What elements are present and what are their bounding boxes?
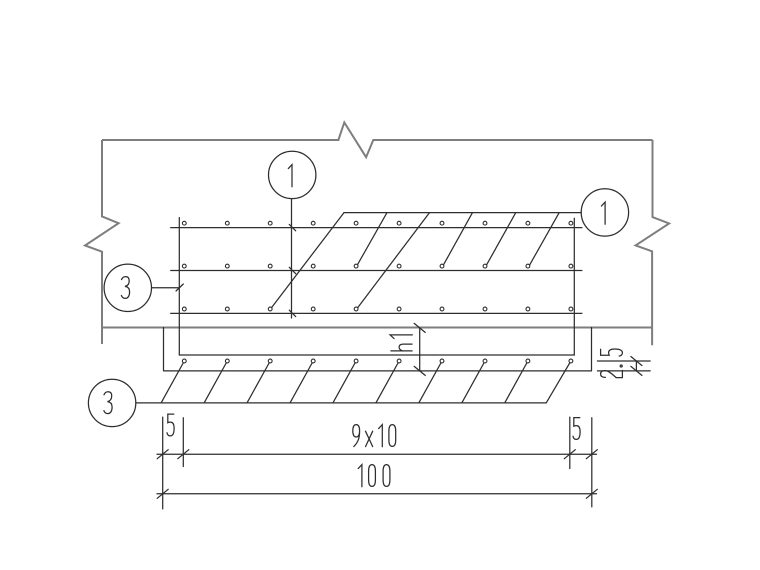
mesh bottom chord (179, 354, 574, 356)
h1 tick bottom (414, 366, 425, 375)
h1 dimension line (419, 328, 421, 371)
rebar row 1 (171, 227, 582, 229)
extension line left inner (182, 418, 184, 467)
bent bar long diagonal c (357, 213, 430, 309)
rebar dots row 2 (182, 264, 572, 268)
extension line left outer (162, 417, 164, 509)
section line tick row2 (289, 267, 295, 273)
text 100 (358, 465, 390, 487)
section line tick row3 (289, 310, 295, 316)
2.5 tick bottom (631, 366, 642, 375)
2.5 dim extension bottom (597, 370, 650, 372)
digit 3 in bottom bubble (104, 392, 112, 414)
section line tick row1 (289, 224, 295, 230)
text 9x10 (353, 425, 396, 447)
bent bar long diagonal a (271, 213, 345, 309)
section line 1 (291, 199, 293, 318)
2.5 dimension line (635, 361, 637, 371)
concrete outline right edge with break (636, 140, 670, 345)
leader arrow tick (176, 284, 183, 291)
2.5 tick top (631, 357, 642, 366)
h1 tick top (414, 323, 425, 332)
text 5 left (167, 414, 174, 436)
bent bar short diagonal e (486, 213, 516, 267)
dimension line 9x10 (157, 453, 597, 455)
bent bar short diagonal d (443, 213, 473, 267)
rebar row 3 (171, 312, 582, 314)
mesh left edge (178, 218, 180, 355)
extension line right inner (569, 417, 571, 468)
bubble 1 top (269, 151, 316, 198)
leader from bubble 3 left (152, 287, 180, 289)
rebar row 2 (171, 270, 582, 272)
concrete outline top edge with break (85, 122, 669, 345)
extension line right outer (591, 418, 593, 507)
rebar dots lower mat (182, 359, 572, 363)
dim ticks lower (157, 489, 168, 498)
dimension line 100 (157, 493, 597, 495)
drop panel outline (164, 328, 592, 371)
concrete outline left edge with break (85, 140, 119, 344)
bent bar short diagonal b (357, 213, 387, 267)
bent bar top line to bubble 1 (344, 212, 581, 214)
2.5 text (601, 349, 623, 378)
rebar dots row 3 (182, 307, 572, 311)
2.5 dim extension top (597, 360, 650, 362)
text 5 right (573, 418, 580, 440)
digit 1 in right bubble (601, 202, 605, 224)
mesh right edge (573, 218, 575, 355)
digit 3 in left bubble (121, 277, 129, 299)
bent bar short diagonal f (529, 213, 559, 267)
lower hatch base line / leader from bubble 3 bottom (136, 402, 546, 404)
bubble 3 left (104, 264, 151, 311)
dim ticks upper (157, 450, 168, 459)
bubble 1 right (581, 189, 628, 236)
lower bent bar diagonals (161, 361, 571, 403)
digit 1 in top bubble (288, 165, 292, 187)
h1 text (390, 335, 412, 351)
bubble 3 bottom (88, 379, 135, 426)
rebar dots row 1 (182, 221, 572, 225)
concrete slab soffit line (102, 327, 652, 329)
